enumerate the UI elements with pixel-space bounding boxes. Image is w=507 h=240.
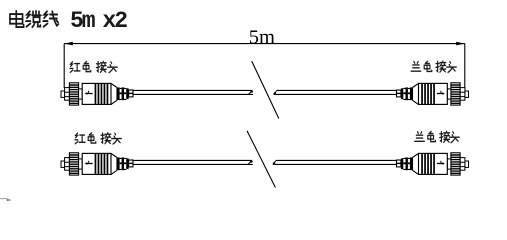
label red connector top xyxy=(70,61,117,72)
right dim arrowhead xyxy=(456,42,465,46)
dimension line xyxy=(64,43,465,45)
cable top-left cut curl xyxy=(251,91,253,93)
svg-text:5m: 5m xyxy=(249,26,275,48)
cable bottom-left cut end xyxy=(248,161,252,165)
connector bottom-right (mirrored) xyxy=(397,153,469,175)
label blue connector bottom xyxy=(415,131,460,142)
cable bottom-left segment xyxy=(133,160,253,164)
left dim arrowhead xyxy=(64,42,73,46)
cable top-right cut curl xyxy=(274,93,276,95)
cable bottom-right cut end xyxy=(273,161,276,165)
connector top-left xyxy=(61,83,133,105)
cable top-left cut end xyxy=(248,91,252,95)
connector bottom-left xyxy=(61,153,133,175)
break slash top xyxy=(252,61,279,118)
cable top-left segment xyxy=(133,90,253,94)
faint bottom-left artifact xyxy=(0,198,7,200)
extension line left xyxy=(63,44,65,88)
extension line right xyxy=(464,44,466,94)
cable bottom-right cut curl xyxy=(273,163,275,165)
cable top-right cut end xyxy=(274,91,277,95)
connector top-right (mirrored) xyxy=(397,83,469,105)
cable bottom-right segment xyxy=(273,160,396,164)
svg-text:x2: x2 xyxy=(103,8,128,34)
svg-text:5m: 5m xyxy=(70,8,95,34)
label blue connector top xyxy=(411,61,456,72)
cable top-right segment xyxy=(274,90,396,94)
title 电缆线 xyxy=(10,11,59,27)
cable bottom-left cut curl xyxy=(250,161,252,163)
label red connector bottom xyxy=(75,133,121,144)
break slash bottom xyxy=(247,131,275,188)
